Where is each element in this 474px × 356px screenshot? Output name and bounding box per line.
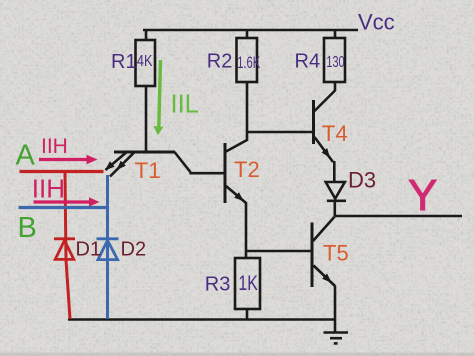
svg-text:1.6K: 1.6K xyxy=(237,53,261,72)
svg-text:4K: 4K xyxy=(137,53,153,70)
svg-text:IIH: IIH xyxy=(41,135,68,158)
svg-text:D2: D2 xyxy=(121,239,147,261)
svg-text:T5: T5 xyxy=(323,241,349,266)
svg-text:R2: R2 xyxy=(207,50,233,72)
svg-text:IIL: IIL xyxy=(171,91,199,119)
svg-text:B: B xyxy=(18,212,37,244)
svg-text:T1: T1 xyxy=(135,158,161,183)
svg-text:R1: R1 xyxy=(111,51,137,73)
svg-text:D1: D1 xyxy=(76,239,102,261)
svg-text:IIH: IIH xyxy=(32,174,65,204)
svg-text:R4: R4 xyxy=(295,51,321,73)
svg-text:1K: 1K xyxy=(238,272,258,296)
svg-text:Y: Y xyxy=(408,171,437,220)
svg-text:T4: T4 xyxy=(322,121,348,146)
svg-text:Vcc: Vcc xyxy=(358,10,395,35)
svg-text:A: A xyxy=(16,140,36,172)
svg-text:D3: D3 xyxy=(348,168,376,193)
svg-text:T2: T2 xyxy=(234,157,260,182)
svg-text:R3: R3 xyxy=(205,274,231,296)
svg-text:130: 130 xyxy=(326,53,344,71)
